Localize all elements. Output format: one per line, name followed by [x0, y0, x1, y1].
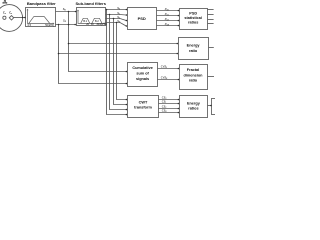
svg-text:transform: transform	[134, 106, 152, 110]
svg-text:CWT: CWT	[139, 100, 148, 104]
svg-text:PSD: PSD	[138, 16, 146, 21]
svg-text:Energy: Energy	[187, 101, 201, 105]
svg-text:signals: signals	[136, 77, 149, 81]
svg-text:300(kHz): 300(kHz)	[96, 23, 106, 26]
svg-text:PSD: PSD	[189, 11, 197, 15]
svg-text:Sub-band filters: Sub-band filters	[75, 1, 106, 6]
svg-text:sum of: sum of	[136, 72, 149, 76]
svg-text:Fractal: Fractal	[187, 68, 199, 72]
svg-text:ratios: ratios	[188, 107, 198, 111]
svg-text:ratio: ratio	[189, 49, 198, 53]
svg-text:statistical: statistical	[184, 16, 202, 20]
svg-text:50(kHz): 50(kHz)	[45, 24, 54, 27]
svg-text:dimension: dimension	[184, 73, 204, 77]
svg-text:0.5: 0.5	[28, 24, 32, 27]
svg-text:ratios: ratios	[188, 21, 198, 25]
svg-text:ratio: ratio	[189, 78, 198, 82]
svg-text:Cumulative: Cumulative	[132, 66, 152, 70]
svg-text:Cs: Cs	[3, 11, 6, 14]
svg-text:Cx: Cx	[9, 11, 12, 14]
svg-text:Energy: Energy	[187, 44, 201, 48]
svg-text:Bandpass filter: Bandpass filter	[27, 1, 56, 6]
